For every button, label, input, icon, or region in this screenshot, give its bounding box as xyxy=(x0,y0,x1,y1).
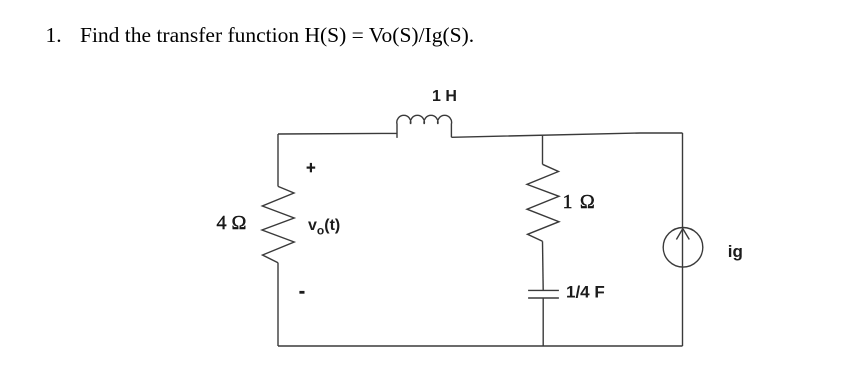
problem title text xyxy=(80,25,474,47)
wire left branch upper vertical xyxy=(277,134,279,186)
wire right branch lower vertical xyxy=(682,267,684,346)
svg-text:1 H: 1 H xyxy=(432,88,457,105)
svg-text:1 Ω: 1 Ω xyxy=(563,191,596,213)
wire bottom rail xyxy=(278,345,683,347)
label minus sign xyxy=(299,291,304,294)
svg-text:ig: ig xyxy=(728,242,743,261)
svg-text:1/4 F: 1/4 F xyxy=(566,282,605,301)
svg-text:4 Ω: 4 Ω xyxy=(217,212,247,234)
problem title number xyxy=(46,25,62,47)
wire 1ohm resistor to capacitor xyxy=(542,241,545,290)
wire middle branch top stub xyxy=(542,136,544,165)
wire through current source xyxy=(682,228,684,268)
current source arrow head xyxy=(676,229,689,240)
wire capacitor to bottom rail xyxy=(542,298,544,346)
wire top-left: left branch top corner to inductor xyxy=(278,132,397,135)
inductor L 1H xyxy=(397,115,452,138)
capacitor C 1/4F top plate xyxy=(528,289,559,291)
wire inductor to top-right corner (slanted) xyxy=(451,133,682,137)
current source Ig circle xyxy=(663,228,703,268)
resistor R 1ohm zigzag xyxy=(527,164,559,241)
resistor R 4ohm zigzag xyxy=(262,186,294,262)
label plus sign xyxy=(307,163,316,172)
wire left branch lower vertical xyxy=(277,263,279,346)
capacitor C 1/4F bottom plate xyxy=(528,297,559,299)
wire right branch upper vertical xyxy=(682,133,684,228)
svg-text:vo(t): vo(t) xyxy=(308,217,340,237)
